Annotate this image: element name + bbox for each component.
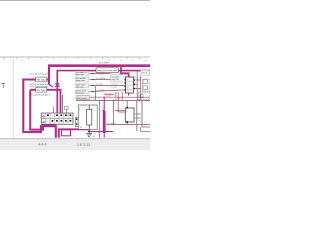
svg-text:2: 2 bbox=[9, 58, 11, 62]
svg-text:front conn: front conn bbox=[76, 73, 84, 76]
svg-text:0.5 GN: 0.5 GN bbox=[111, 87, 117, 89]
svg-text:rear conn: rear conn bbox=[76, 87, 84, 89]
svg-text:9: 9 bbox=[96, 58, 98, 62]
svg-text:M32 motor: M32 motor bbox=[77, 97, 87, 100]
svg-text:0.75 BK: 0.75 BK bbox=[96, 84, 103, 86]
svg-text:0.5 BR/BK: 0.5 BR/BK bbox=[96, 90, 105, 92]
svg-text:relay K19: relay K19 bbox=[111, 79, 119, 81]
svg-text:11: 11 bbox=[120, 58, 123, 62]
svg-text:0.5 GN/WH: 0.5 GN/WH bbox=[96, 78, 106, 80]
svg-text:86: 86 bbox=[127, 79, 129, 81]
svg-text:30: 30 bbox=[127, 87, 129, 89]
svg-text:30 2.5 RD: 30 2.5 RD bbox=[99, 63, 109, 65]
svg-text:0.5 BK/VT: 0.5 BK/VT bbox=[111, 84, 119, 86]
svg-text:0.75 BR: 0.75 BR bbox=[111, 90, 118, 92]
svg-text:0.5 VT: 0.5 VT bbox=[106, 95, 112, 97]
svg-text:7: 7 bbox=[71, 58, 73, 62]
svg-text:F52 15A: F52 15A bbox=[37, 89, 45, 92]
svg-text:3: 3 bbox=[22, 58, 24, 62]
svg-text:85: 85 bbox=[80, 127, 82, 129]
svg-text:K19: K19 bbox=[142, 72, 145, 74]
svg-text:5: 5 bbox=[46, 58, 48, 62]
svg-text:0.5 GY/BK: 0.5 GY/BK bbox=[107, 123, 116, 125]
svg-text:F24 10A: F24 10A bbox=[37, 79, 45, 82]
svg-text:0.5 GY: 0.5 GY bbox=[99, 74, 105, 76]
svg-text:Dash (Drk) fuse box: Dash (Drk) fuse box bbox=[30, 73, 49, 76]
svg-text:13: 13 bbox=[144, 58, 147, 62]
svg-text:1 E 3 11: 1 E 3 11 bbox=[77, 143, 90, 147]
svg-text:8: 8 bbox=[83, 58, 85, 62]
svg-text:85: 85 bbox=[127, 83, 129, 85]
svg-text:pump conn: pump conn bbox=[76, 80, 85, 82]
svg-text:4: 4 bbox=[34, 58, 36, 62]
svg-text:T: T bbox=[1, 81, 6, 90]
svg-text:87: 87 bbox=[127, 91, 129, 93]
svg-text:31: 31 bbox=[93, 136, 96, 138]
svg-text:0.5 BR: 0.5 BR bbox=[122, 108, 124, 114]
svg-text:6: 6 bbox=[59, 58, 61, 62]
svg-text:0.35 RD: 0.35 RD bbox=[130, 77, 137, 79]
svg-text:12: 12 bbox=[132, 58, 135, 62]
svg-text:level conn: level conn bbox=[76, 93, 84, 95]
svg-text:Rear (elec) fuse box 2: Rear (elec) fuse box 2 bbox=[30, 93, 51, 96]
svg-text:0.5 BR: 0.5 BR bbox=[115, 99, 121, 101]
svg-text:4 4 4: 4 4 4 bbox=[39, 143, 47, 147]
svg-text:rly: rly bbox=[146, 72, 148, 74]
svg-text:10: 10 bbox=[107, 58, 110, 62]
